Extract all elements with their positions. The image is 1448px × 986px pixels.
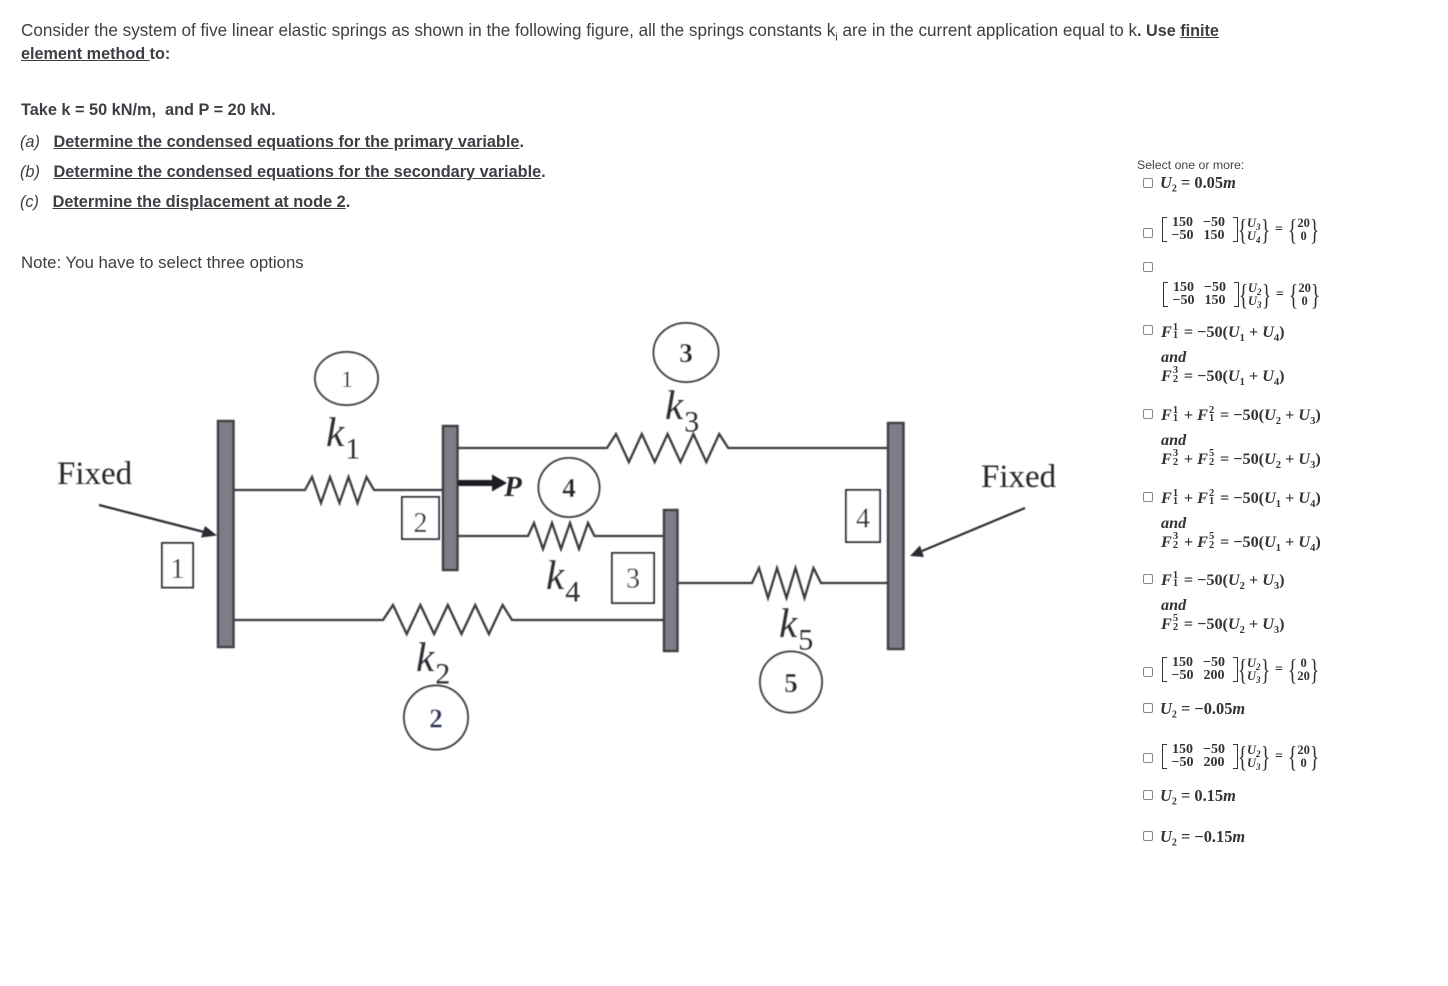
opt12 math U2=-0.15m xyxy=(1160,827,1245,847)
svg-text:3: 3 xyxy=(626,564,640,595)
opt4 F equations xyxy=(1161,323,1285,392)
svg-text:2: 2 xyxy=(414,508,428,539)
svg-text:k3: k3 xyxy=(665,382,699,439)
svg-text:3: 3 xyxy=(679,338,693,368)
svg-text:4: 4 xyxy=(856,504,870,535)
svg-text:4: 4 xyxy=(562,473,576,503)
opt5 checkbox xyxy=(1143,409,1153,419)
opt9 math U2=-0.05m xyxy=(1160,699,1245,719)
opt2 matrix U3 U4 = 20 0 xyxy=(1162,216,1319,243)
svg-text:k2: k2 xyxy=(416,634,450,691)
opt3 checkbox xyxy=(1143,262,1153,272)
item b xyxy=(20,163,546,182)
spring k3 wire+coil xyxy=(458,434,888,462)
svg-text:Fixed: Fixed xyxy=(981,459,1057,495)
arrow fixed right xyxy=(922,508,1025,551)
svg-text:k5: k5 xyxy=(779,600,813,657)
opt8 matrix 150 -50 -50 200 = 0 20 xyxy=(1162,656,1319,683)
arrow fixed left xyxy=(99,505,204,532)
opt6 checkbox xyxy=(1143,492,1153,502)
svg-text:1: 1 xyxy=(341,367,353,392)
element circle 4 xyxy=(539,458,600,517)
svg-text:2: 2 xyxy=(429,704,443,734)
svg-text:k1: k1 xyxy=(326,409,360,466)
element circle 1 xyxy=(315,352,378,405)
wall node 2 (middle) xyxy=(443,426,458,570)
node square 2 xyxy=(402,497,439,539)
opt12 checkbox xyxy=(1143,831,1153,841)
node square 1 xyxy=(162,543,193,588)
take line xyxy=(21,101,276,120)
spring k4 wire+coil xyxy=(458,523,664,549)
note line xyxy=(21,253,304,273)
opt10 checkbox xyxy=(1143,753,1153,763)
opt1 checkbox xyxy=(1143,178,1153,188)
element circle 2 xyxy=(404,686,468,750)
item c xyxy=(20,193,350,212)
wall node 1 (left fixed) xyxy=(218,421,234,647)
item a xyxy=(20,133,524,152)
opt6 F equations xyxy=(1161,489,1321,558)
spring k5 wire+coil xyxy=(678,568,888,598)
select prompt xyxy=(1137,158,1244,172)
spring k2 wire+coil xyxy=(234,605,664,634)
opt11 checkbox xyxy=(1143,790,1153,800)
wall node 4 (right fixed) xyxy=(888,423,904,649)
svg-text:k4: k4 xyxy=(546,552,580,609)
opt9 checkbox xyxy=(1143,703,1153,713)
opt1 math U2=0.05m xyxy=(1160,173,1236,193)
element circle 5 xyxy=(760,652,822,713)
opt7 checkbox xyxy=(1143,574,1153,584)
force arrow P xyxy=(458,480,492,486)
spring k1 wire+coil xyxy=(234,477,443,503)
opt8 checkbox xyxy=(1143,667,1153,677)
svg-text:Fixed: Fixed xyxy=(57,456,133,492)
svg-text:1: 1 xyxy=(171,554,185,585)
node square 4 xyxy=(846,490,880,542)
svg-text:P: P xyxy=(503,471,522,503)
opt4 checkbox xyxy=(1143,325,1153,335)
opt2 checkbox xyxy=(1143,228,1153,238)
node square 3 xyxy=(612,553,654,603)
opt11 math U2=0.15m xyxy=(1160,786,1236,806)
opt10 matrix 150 -50 -50 200 = 20 0 xyxy=(1162,743,1319,770)
svg-text:5: 5 xyxy=(784,668,798,698)
element circle 3 xyxy=(654,323,719,382)
question paragraph xyxy=(21,20,1219,65)
opt5 F equations xyxy=(1161,406,1321,475)
opt3 matrix U2 U3 = 20 0 xyxy=(1163,281,1320,308)
wall node 3 xyxy=(664,510,678,651)
opt7 F equations xyxy=(1161,571,1285,640)
